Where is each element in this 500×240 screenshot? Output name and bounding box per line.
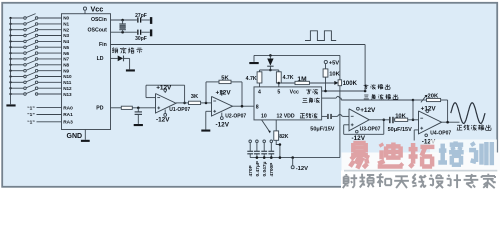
svg-text:3K: 3K (191, 94, 199, 100)
svg-text:RA0: RA0 (63, 105, 73, 111)
svg-text:10: 10 (261, 114, 267, 120)
svg-text:470P: 470P (248, 164, 254, 176)
svg-text:100K: 100K (343, 81, 358, 87)
svg-text:Vcc: Vcc (290, 89, 299, 95)
svg-text:N12: N12 (63, 86, 72, 91)
svg-text:0.047μ: 0.047μ (262, 161, 268, 176)
svg-text:U2-OP07: U2-OP07 (225, 113, 246, 119)
svg-text:Vcc: Vcc (91, 4, 104, 13)
svg-text:OSCout: OSCout (87, 27, 107, 33)
svg-text:N5: N5 (63, 45, 69, 50)
svg-text:4700P: 4700P (269, 162, 275, 177)
svg-text:PD: PD (96, 106, 103, 112)
svg-text:-12V: -12V (296, 166, 308, 172)
svg-text:8: 8 (256, 104, 259, 110)
svg-text:-12V: -12V (156, 117, 170, 124)
svg-text:4.7K: 4.7K (283, 75, 294, 81)
svg-text:N6: N6 (63, 51, 69, 56)
svg-text:4: 4 (258, 89, 261, 95)
svg-text:RA1: RA1 (63, 112, 73, 118)
svg-text:U4-OP07: U4-OP07 (430, 131, 451, 137)
svg-text:N3: N3 (63, 33, 69, 38)
svg-text:1M: 1M (297, 76, 307, 83)
svg-text:10K: 10K (329, 72, 340, 78)
svg-text:N7: N7 (63, 57, 69, 62)
svg-text:N8: N8 (63, 63, 69, 68)
svg-text:“1”: “1” (27, 120, 35, 126)
svg-text:GND: GND (67, 133, 83, 140)
svg-text:U1-OP07: U1-OP07 (169, 107, 190, 113)
svg-text:+12V: +12V (216, 90, 232, 97)
svg-text:12 VDD: 12 VDD (277, 114, 295, 120)
svg-text:Fin: Fin (99, 42, 107, 48)
svg-text:4.7K: 4.7K (246, 76, 257, 82)
svg-text:82K: 82K (279, 134, 289, 140)
svg-text:0.47μP: 0.47μP (255, 160, 261, 176)
svg-text:“1”: “1” (27, 112, 35, 118)
svg-text:30pF: 30pF (135, 36, 147, 42)
svg-text:50μF/15V: 50μF/15V (310, 126, 334, 132)
svg-text:N1: N1 (63, 22, 69, 27)
svg-text:+12V: +12V (156, 84, 172, 91)
svg-text:RA3: RA3 (63, 120, 73, 126)
svg-text:27pF: 27pF (135, 13, 147, 19)
svg-text:20K: 20K (428, 94, 439, 100)
svg-text:+5V: +5V (329, 60, 340, 66)
svg-text:N2: N2 (63, 27, 69, 32)
svg-text:10K: 10K (395, 114, 406, 120)
svg-text:“1”: “1” (27, 105, 35, 111)
svg-text:5K: 5K (221, 76, 229, 82)
svg-text:N0: N0 (63, 16, 69, 21)
svg-text:N13: N13 (63, 92, 72, 97)
svg-text:N11: N11 (63, 80, 72, 85)
svg-text:N4: N4 (63, 39, 69, 44)
svg-text:5: 5 (277, 89, 280, 95)
svg-text:LD: LD (97, 56, 104, 62)
svg-text:U3-OP07: U3-OP07 (360, 127, 381, 133)
svg-text:N10: N10 (63, 74, 72, 79)
svg-text:-12V: -12V (216, 121, 230, 128)
svg-text:+12V: +12V (360, 107, 376, 114)
svg-text:+12V: +12V (421, 105, 437, 112)
svg-text:OSCin: OSCin (91, 17, 107, 23)
svg-text:N9: N9 (63, 68, 69, 73)
svg-text:50μF/15V: 50μF/15V (388, 127, 412, 133)
